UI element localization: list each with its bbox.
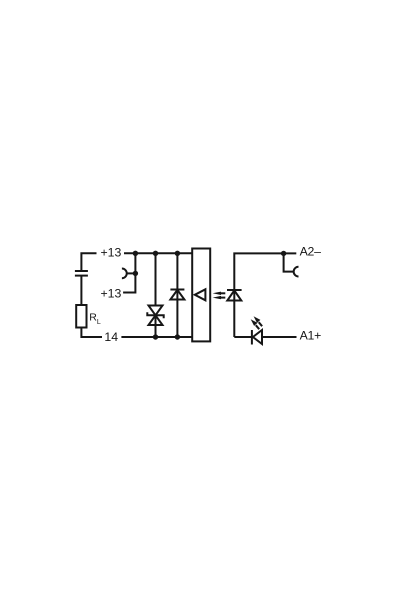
wire: resistor bottom to 14 terminal: [81, 328, 102, 338]
resistor RL: [76, 305, 86, 328]
wire: bottom run to A1+: [234, 336, 251, 338]
svg-text:A2–: A2–: [300, 245, 322, 259]
LED emission arrow (lower-left, pointing up-left): [251, 319, 260, 329]
LED emission arrow (upper-right, pointing up-left): [254, 316, 263, 326]
optocoupler box U1: [192, 249, 210, 342]
svg-text:+13: +13: [101, 287, 122, 301]
light coupling arrow (lower, pointing left): [213, 296, 226, 299]
svg-text:14: 14: [104, 330, 118, 344]
wire: top rail from +13 to coupler box: [124, 252, 192, 254]
svg-text:RL: RL: [89, 312, 101, 326]
wire: second +13 terminal up to top rail: [123, 253, 135, 292]
wire: freewheel diode rail: [176, 253, 178, 337]
wire: TVS rail upper segment: [155, 253, 157, 305]
diode D1 (cathode bar up): [170, 290, 184, 300]
capacitor C1: [75, 271, 88, 276]
light coupling arrow (upper, pointing left): [213, 292, 226, 295]
node: junction bottom rail / diode rail: [175, 334, 180, 339]
wire: TVS rail lower segment: [155, 315, 157, 337]
node: junction at plug-in contact: [133, 271, 138, 276]
wire: bottom rail from 14 to coupler box: [121, 336, 192, 338]
indicator LED D3 (pointing left): [252, 330, 262, 345]
photodetector triangle inside box: [195, 289, 206, 300]
node: junction top rail / diode rail: [175, 251, 180, 256]
wire: +13 terminal stub to capacitor top: [81, 253, 96, 271]
TVS suppressor diode (bidirectional): [147, 306, 163, 326]
opto emitter LED D2 (cathode bar up): [227, 290, 242, 301]
plug-in socket contact at +13 branch (arc + stub): [122, 269, 135, 279]
node: junction A2 plug branch: [281, 251, 286, 256]
wire: capacitor bottom to resistor: [80, 276, 82, 305]
wire: A2- top run and LED rail: [234, 253, 296, 337]
plug-in socket contact at A2 (stub + arc): [284, 253, 299, 276]
svg-text:+13: +13: [101, 246, 122, 260]
node: junction top rail / TVS rail: [153, 251, 158, 256]
node: junction bottom rail / TVS rail: [153, 334, 158, 339]
node: junction top rail / second +13 branch: [133, 251, 138, 256]
svg-text:A1+: A1+: [300, 329, 322, 343]
